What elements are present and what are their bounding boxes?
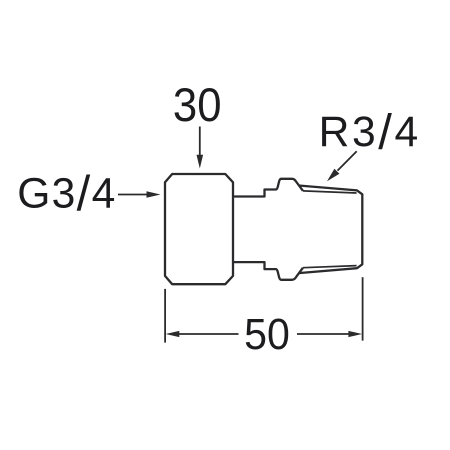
svg-text:30: 30: [173, 79, 222, 132]
svg-text:G3/4: G3/4: [17, 167, 116, 221]
svg-text:R3/4: R3/4: [319, 106, 421, 160]
svg-text:50: 50: [244, 310, 290, 358]
